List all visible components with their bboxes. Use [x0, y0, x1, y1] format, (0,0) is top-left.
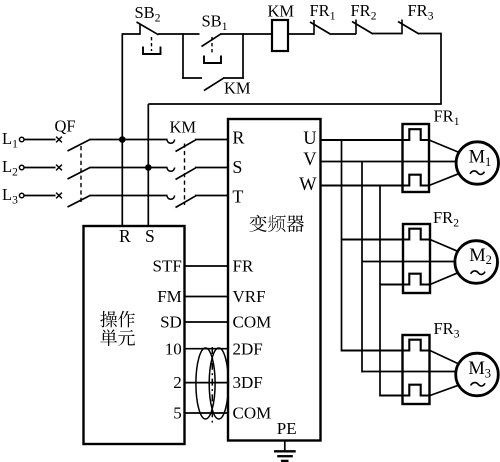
- svg-text:L: L: [2, 129, 12, 148]
- wire W to FR1 heater: [321, 175, 430, 186]
- wire U to FR1 heater: [321, 129, 430, 140]
- svg-text:COM: COM: [233, 313, 272, 332]
- svg-text:STF: STF: [153, 257, 182, 276]
- wire 5 to inverter: [185, 412, 230, 414]
- svg-text:2: 2: [155, 12, 161, 24]
- label 操作单元: [100, 311, 117, 327]
- svg-text:L: L: [2, 157, 12, 176]
- svg-text:FR: FR: [351, 1, 371, 20]
- svg-text:M: M: [468, 359, 484, 379]
- wire branch bottom left: [182, 77, 202, 79]
- motor M1: [456, 142, 498, 184]
- junction dot L2/control return: [145, 164, 152, 171]
- wire FR2 to FR3: [373, 33, 403, 35]
- svg-text:FM: FM: [157, 287, 182, 306]
- node L1 supply terminal: [19, 137, 24, 142]
- breaker QF pole 3: [56, 193, 62, 199]
- label 变频器: [250, 215, 267, 232]
- wire to FR3 heater top: [342, 340, 431, 351]
- wire R drop to operation unit: [121, 33, 123, 226]
- svg-text:FR: FR: [233, 257, 254, 276]
- wire branch U down: [341, 140, 343, 352]
- junction dot L1/control: [119, 136, 126, 143]
- wire V through FR1: [321, 161, 457, 163]
- contact KM auxiliary (NO self-hold): [204, 78, 224, 90]
- wire FR3 to M3 bottom: [430, 385, 459, 395]
- contact KM main pole 2: [167, 168, 175, 172]
- wire parallel branch right: [242, 33, 244, 79]
- wire control rung left segment: [122, 33, 140, 35]
- wire to FR2 heater bottom: [380, 274, 430, 285]
- wire QF pole 2 to KM contact: [90, 167, 168, 169]
- contactor KM main linkage: [184, 144, 186, 206]
- svg-text:10: 10: [165, 339, 182, 358]
- svg-text:1: 1: [330, 11, 336, 23]
- wire L2 to QF: [24, 167, 55, 169]
- svg-text:KM: KM: [224, 78, 251, 97]
- wire QF pole 3 to KM contact: [90, 195, 168, 197]
- svg-text:FR: FR: [310, 1, 330, 20]
- wire KM pole 2 to inverter: [195, 167, 229, 169]
- ground: [284, 441, 286, 452]
- wire branch bottom right: [223, 77, 244, 79]
- svg-text:V: V: [303, 150, 317, 170]
- svg-text:2: 2: [173, 373, 182, 392]
- wire coil to FR1 contact: [288, 33, 314, 35]
- svg-text:M: M: [469, 148, 485, 168]
- svg-text:3DF: 3DF: [233, 373, 263, 392]
- svg-text:3: 3: [485, 366, 491, 380]
- breaker QF linkage: [80, 146, 82, 204]
- pushbutton SB1 (NO): [202, 34, 221, 46]
- svg-text:R: R: [232, 128, 244, 148]
- motor M2: [455, 241, 498, 284]
- wire FR3 to M3 top: [430, 351, 459, 364]
- wire parallel branch left: [182, 33, 184, 79]
- svg-text:FR: FR: [434, 319, 454, 338]
- svg-text:U: U: [303, 129, 316, 149]
- svg-text:FR: FR: [433, 208, 453, 227]
- svg-text:S: S: [232, 157, 242, 177]
- coil KM: [272, 20, 288, 51]
- breaker QF pole 1: [56, 137, 62, 143]
- pushbutton SB2 (NC): [139, 25, 141, 35]
- svg-text:2: 2: [371, 11, 377, 23]
- wire branch W down: [379, 186, 381, 397]
- contact KM main pole 1: [167, 140, 175, 144]
- svg-text:W: W: [299, 175, 317, 195]
- wire L1 to QF: [24, 139, 55, 141]
- svg-text:3: 3: [12, 195, 18, 207]
- svg-text:KM: KM: [170, 118, 197, 137]
- wire return drop to L2: [147, 104, 149, 168]
- svg-text:PE: PE: [277, 419, 297, 438]
- wire to FR2 heater top: [342, 229, 431, 240]
- svg-text:3: 3: [428, 11, 434, 23]
- svg-text:R: R: [119, 226, 131, 246]
- svg-text:FR: FR: [408, 1, 428, 20]
- svg-text:VRF: VRF: [233, 287, 266, 306]
- wire S drop to operation unit: [147, 168, 149, 227]
- svg-text:M: M: [469, 246, 485, 266]
- wire KM pole 1 to inverter: [195, 139, 229, 141]
- heater FR3: [403, 335, 430, 404]
- wire QF pole 1 to KM contact: [90, 139, 168, 141]
- heater FR2: [403, 224, 430, 293]
- wire FR1 to M1 bottom: [429, 174, 459, 186]
- wire FM to inverter: [185, 296, 230, 298]
- svg-text:T: T: [232, 186, 243, 206]
- contact KM main pole 3: [167, 196, 175, 200]
- wire KM pole 3 to inverter: [195, 195, 229, 197]
- svg-text:1: 1: [485, 155, 491, 169]
- contact FR2 (NC thermal): [355, 20, 357, 35]
- heater FR1: [403, 124, 430, 192]
- svg-text:3: 3: [454, 329, 460, 341]
- wire to FR3 heater bottom: [380, 385, 430, 396]
- wire L3 to QF: [24, 195, 55, 197]
- wire FR1 to M1 top: [429, 140, 459, 152]
- svg-text:L: L: [2, 185, 12, 204]
- svg-text:SD: SD: [160, 313, 182, 332]
- wire 2 to inverter: [185, 382, 230, 384]
- wire to FR2 middle: [362, 261, 455, 263]
- svg-text:2: 2: [12, 167, 18, 179]
- node L3 supply terminal: [19, 193, 24, 198]
- svg-text:KM: KM: [268, 2, 295, 21]
- wire STF to inverter: [185, 265, 230, 267]
- svg-text:2: 2: [486, 253, 492, 267]
- svg-text:1: 1: [222, 21, 228, 33]
- svg-text:5: 5: [173, 404, 182, 423]
- svg-text:COM: COM: [233, 404, 272, 423]
- svg-text:SB: SB: [202, 12, 222, 31]
- wire 10 to inverter: [185, 348, 230, 350]
- node L2 supply terminal: [19, 165, 24, 170]
- wire SB1 to coil: [220, 33, 272, 35]
- wire FR1 to FR2: [331, 33, 356, 35]
- contact FR1 (NC thermal): [313, 20, 315, 35]
- wire FR2 to M2 top: [430, 240, 458, 252]
- shielded cable symbol: [196, 348, 215, 419]
- svg-text:2DF: 2DF: [233, 339, 263, 358]
- contact FR3 (NC thermal): [401, 20, 403, 35]
- svg-text:2: 2: [453, 218, 459, 230]
- inverter box 变频器: [228, 119, 321, 441]
- wire FR2 to M2 bottom: [430, 273, 458, 285]
- breaker QF pole 2: [56, 165, 62, 171]
- wire branch V down: [361, 162, 363, 373]
- operation unit box U2: [84, 226, 185, 444]
- motor M3: [456, 353, 499, 396]
- wire to FR3 middle: [362, 371, 456, 373]
- svg-text:SB: SB: [135, 3, 155, 22]
- svg-text:QF: QF: [55, 117, 76, 136]
- svg-text:1: 1: [12, 139, 18, 151]
- svg-text:1: 1: [454, 116, 460, 128]
- wire SB2 to SB1: [158, 33, 200, 35]
- svg-text:S: S: [145, 226, 155, 246]
- wire control return right: [148, 34, 441, 105]
- wire SD to inverter: [185, 321, 230, 323]
- svg-text:FR: FR: [434, 107, 454, 126]
